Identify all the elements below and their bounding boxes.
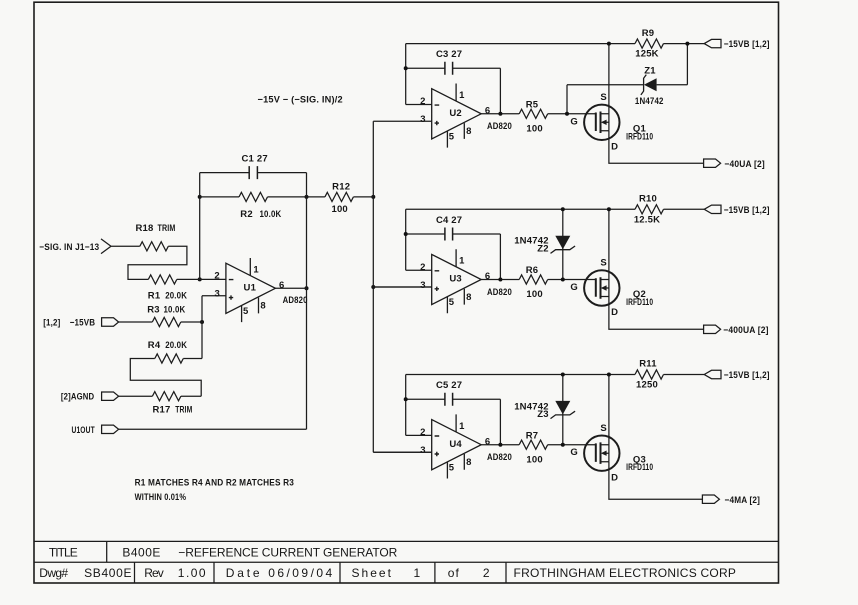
svg-text:C5: C5 bbox=[436, 380, 449, 391]
svg-text:R2: R2 bbox=[240, 209, 253, 220]
svg-text:R5: R5 bbox=[526, 100, 539, 111]
svg-text:WITHIN 0.01%: WITHIN 0.01% bbox=[135, 492, 187, 503]
svg-text:R4: R4 bbox=[148, 340, 161, 351]
svg-text:20.0K: 20.0K bbox=[165, 340, 187, 351]
svg-text:1: 1 bbox=[414, 566, 422, 580]
svg-text:AD820: AD820 bbox=[283, 295, 308, 306]
svg-text:U4: U4 bbox=[449, 439, 462, 450]
svg-text:−4MA [2]: −4MA [2] bbox=[725, 495, 761, 506]
svg-text:of: of bbox=[448, 566, 460, 580]
svg-text:100: 100 bbox=[331, 204, 347, 215]
svg-text:−15VB [1,2]: −15VB [1,2] bbox=[724, 205, 770, 216]
svg-text:−15VB: −15VB bbox=[70, 318, 96, 329]
svg-text:1.00: 1.00 bbox=[178, 566, 207, 580]
svg-text:AD820: AD820 bbox=[487, 287, 512, 298]
svg-text:FROTHINGHAM ELECTRONICS CORP: FROTHINGHAM ELECTRONICS CORP bbox=[514, 566, 738, 580]
svg-text:AD820: AD820 bbox=[487, 121, 512, 132]
svg-text:TRIM: TRIM bbox=[158, 223, 176, 234]
svg-text:Dwg#: Dwg# bbox=[39, 566, 69, 580]
svg-text:C1: C1 bbox=[242, 154, 255, 165]
svg-text:[2]AGND: [2]AGND bbox=[61, 392, 94, 403]
svg-text:100: 100 bbox=[526, 454, 542, 465]
svg-text:−15VB [1,2]: −15VB [1,2] bbox=[724, 370, 770, 381]
svg-text:27: 27 bbox=[451, 215, 462, 226]
svg-text:TITLE: TITLE bbox=[49, 545, 79, 559]
svg-text:IRFD110: IRFD110 bbox=[626, 131, 653, 142]
svg-text:C3: C3 bbox=[436, 49, 449, 60]
svg-text:100: 100 bbox=[526, 124, 542, 135]
svg-text:−40UA [2]: −40UA [2] bbox=[724, 159, 765, 170]
svg-text:100: 100 bbox=[526, 289, 542, 300]
svg-text:27: 27 bbox=[257, 154, 268, 165]
svg-text:Z2: Z2 bbox=[537, 243, 549, 254]
svg-text:R17: R17 bbox=[153, 404, 171, 415]
svg-text:R7: R7 bbox=[526, 430, 539, 441]
svg-text:27: 27 bbox=[451, 380, 462, 391]
svg-text:2: 2 bbox=[483, 566, 491, 580]
svg-text:10.0K: 10.0K bbox=[164, 305, 186, 316]
svg-text:B400E: B400E bbox=[122, 545, 161, 559]
svg-text:−15V − (−SIG. IN)/2: −15V − (−SIG. IN)/2 bbox=[258, 94, 343, 105]
svg-text:C4: C4 bbox=[436, 215, 449, 226]
svg-text:125K: 125K bbox=[635, 49, 659, 60]
svg-text:AD820: AD820 bbox=[487, 452, 512, 463]
svg-text:−SIG. IN J1−13: −SIG. IN J1−13 bbox=[39, 242, 99, 253]
svg-text:R10: R10 bbox=[639, 194, 657, 205]
svg-text:06/09/04: 06/09/04 bbox=[268, 566, 333, 580]
svg-text:R11: R11 bbox=[639, 359, 657, 370]
svg-text:R9: R9 bbox=[642, 28, 655, 39]
svg-text:10.0K: 10.0K bbox=[260, 209, 282, 220]
svg-text:27: 27 bbox=[451, 49, 462, 60]
svg-text:Sheet: Sheet bbox=[352, 566, 393, 580]
svg-text:R6: R6 bbox=[526, 265, 539, 276]
svg-text:1N4742: 1N4742 bbox=[635, 96, 664, 107]
svg-text:−REFERENCE CURRENT GENERATOR: −REFERENCE CURRENT GENERATOR bbox=[178, 545, 398, 559]
svg-text:IRFD110: IRFD110 bbox=[626, 297, 653, 308]
svg-text:R12: R12 bbox=[332, 181, 350, 192]
svg-text:R1 MATCHES R4 AND R2 MATCHES R: R1 MATCHES R4 AND R2 MATCHES R3 bbox=[135, 478, 294, 489]
svg-text:Z1: Z1 bbox=[644, 65, 656, 76]
svg-text:U1OUT: U1OUT bbox=[72, 425, 95, 436]
svg-text:R18: R18 bbox=[136, 223, 154, 234]
svg-text:[1,2]: [1,2] bbox=[43, 318, 60, 329]
svg-text:TRIM: TRIM bbox=[175, 404, 192, 415]
svg-text:R1: R1 bbox=[148, 291, 161, 302]
svg-text:12.5K: 12.5K bbox=[634, 214, 660, 225]
svg-text:R3: R3 bbox=[147, 305, 160, 316]
svg-text:U2: U2 bbox=[449, 108, 462, 119]
svg-text:IRFD110: IRFD110 bbox=[626, 462, 653, 473]
svg-text:1250: 1250 bbox=[636, 380, 658, 391]
svg-text:−400UA [2]: −400UA [2] bbox=[723, 325, 769, 336]
svg-text:Rev: Rev bbox=[144, 566, 165, 580]
svg-text:U3: U3 bbox=[449, 274, 462, 285]
svg-text:U1: U1 bbox=[244, 283, 257, 294]
svg-text:Z3: Z3 bbox=[537, 409, 549, 420]
svg-text:−15VB [1,2]: −15VB [1,2] bbox=[724, 39, 770, 50]
svg-text:SB400E: SB400E bbox=[84, 566, 133, 580]
svg-text:20.0K: 20.0K bbox=[165, 291, 187, 302]
svg-text:Date: Date bbox=[226, 566, 261, 580]
